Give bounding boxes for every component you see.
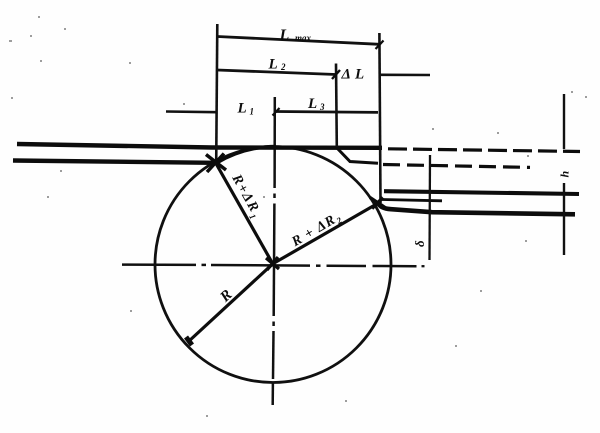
svg-text:1: 1 <box>250 107 255 117</box>
top-surface jog step below E2 <box>337 148 379 164</box>
extension line E2 middle <box>335 64 338 148</box>
junction blob at circle center <box>266 257 279 270</box>
bent sheet middle short line <box>382 200 442 201</box>
svg-text:δ: δ <box>412 240 427 247</box>
svg-text:2: 2 <box>280 62 286 72</box>
junction blob upper-left tangent <box>206 154 226 173</box>
dimension line delta (thickness) vertical <box>428 155 431 260</box>
radius line R+dR2 <box>273 204 378 264</box>
dimension line stub left of E1 for L1 <box>166 110 217 113</box>
svg-text:L: L <box>237 101 247 117</box>
svg-text:h: h <box>558 171 572 178</box>
tick at L3 left end <box>273 108 280 116</box>
thick arc where sheet wraps roll (upper-left) <box>217 147 277 164</box>
arrow blob at R end <box>186 337 192 345</box>
junction blob right corner <box>370 198 385 209</box>
svg-text:L: L <box>307 96 317 112</box>
bent sheet top line (right, thick) <box>384 191 579 194</box>
dimension line L_max <box>218 37 380 45</box>
dimension line h lower segment <box>563 183 565 255</box>
dimension line stub right of E3 for delta-L <box>380 74 430 77</box>
radius line R <box>189 264 273 342</box>
dimension line L2 <box>217 70 336 75</box>
radius line R+dR1 <box>216 164 273 264</box>
tick at L_max right end <box>376 41 384 50</box>
extension line E3 right <box>379 33 380 203</box>
roll circle <box>155 147 391 383</box>
vertical centerline <box>273 97 276 188</box>
dimension line L3 <box>276 110 378 114</box>
dimension line h upper segment <box>563 94 565 149</box>
svg-text:L: L <box>279 27 290 44</box>
svg-text:Δ: Δ <box>341 67 351 83</box>
svg-text:3: 3 <box>319 102 325 112</box>
bent sheet bottom line with corner (right, thick) <box>378 202 576 215</box>
svg-text:L: L <box>354 67 364 83</box>
label h rotated <box>558 171 572 178</box>
tick at L2 right end <box>332 70 340 79</box>
sheet top surface line (left, thick) <box>17 144 382 148</box>
svg-text:max: max <box>295 33 312 43</box>
dashed springback bottom line <box>383 165 530 168</box>
label R+dR2 rotated along radius <box>289 210 345 252</box>
svg-text:L: L <box>268 57 278 73</box>
label R rotated along radius <box>217 287 236 306</box>
label R+dR1 rotated along radius <box>226 171 264 221</box>
dashed springback top line <box>388 149 580 152</box>
sheet bottom surface line (left, thick) <box>13 161 214 163</box>
label delta rotated <box>412 240 427 247</box>
horizontal centerline <box>122 263 196 266</box>
extension line E1 left <box>216 24 217 164</box>
